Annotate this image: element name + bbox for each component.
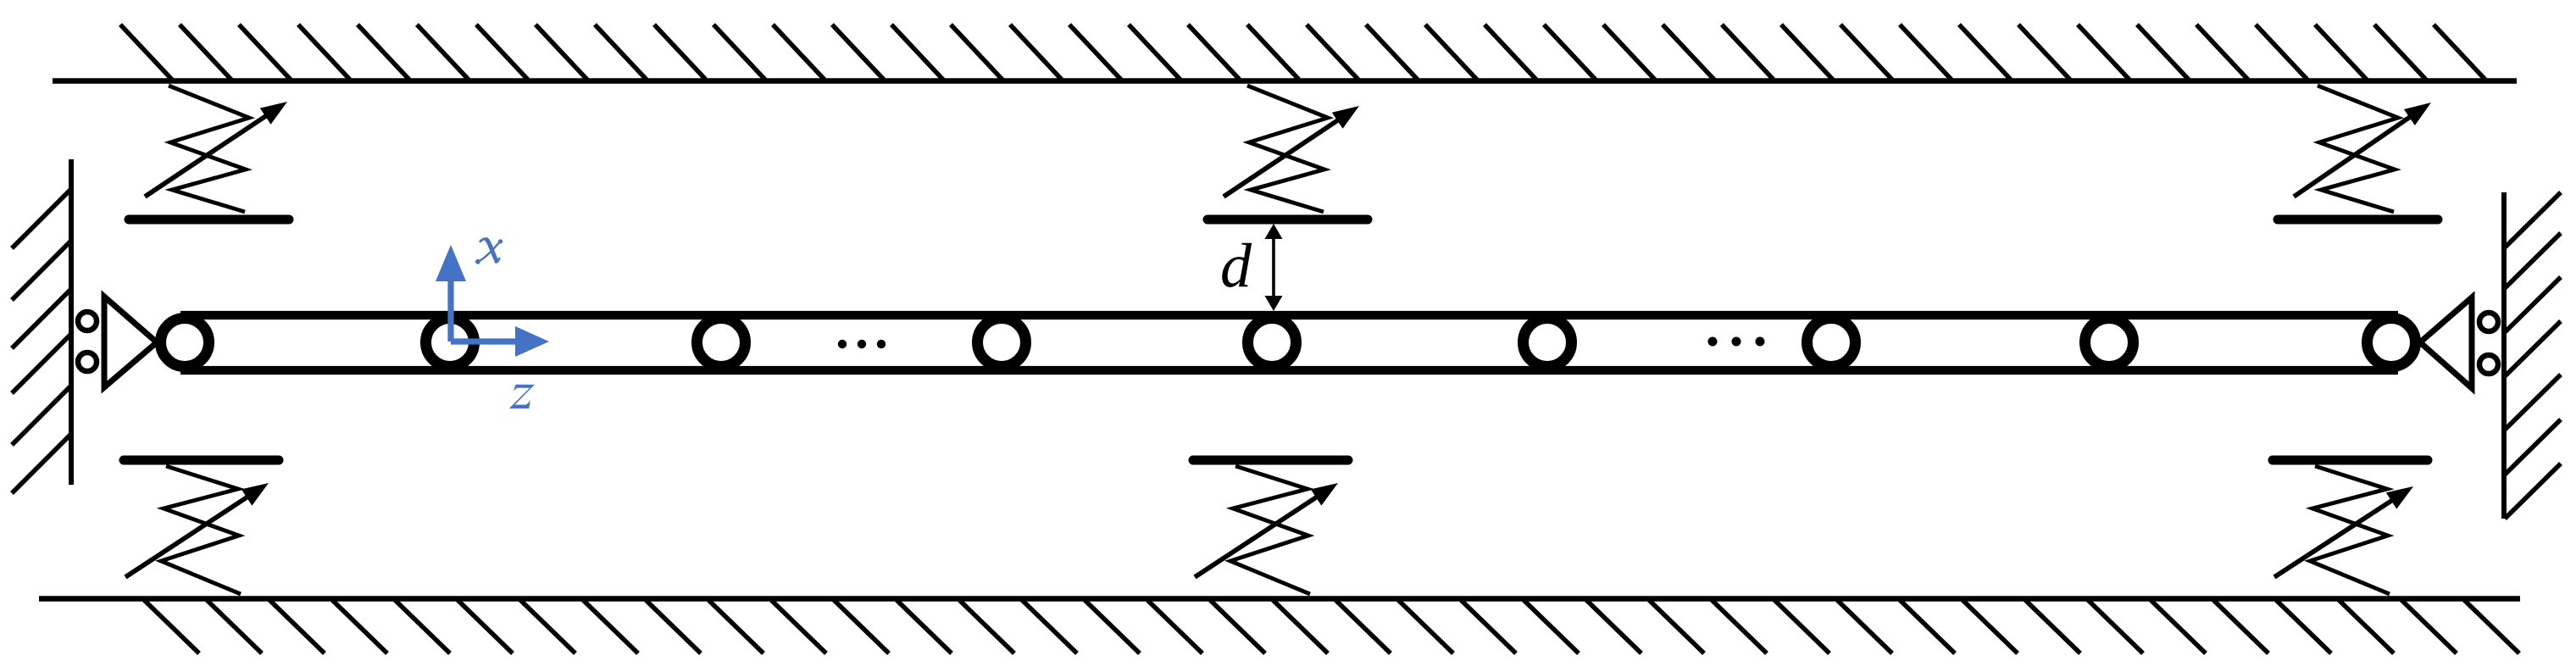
left wall hatching bbox=[12, 189, 71, 493]
left support roller upper bbox=[78, 312, 97, 330]
axis label z bbox=[509, 385, 535, 408]
right wall line bbox=[2501, 192, 2507, 519]
beam node 2 bbox=[426, 319, 475, 367]
ellipsis dots right group bbox=[1708, 337, 1765, 347]
spring bottom-right (zigzag, arrow, contact plate) bbox=[2273, 460, 2428, 594]
left pinned support triangle bbox=[104, 297, 157, 387]
bottom wall line bbox=[39, 596, 2520, 602]
spring top-middle (zigzag, arrow, contact plate) bbox=[1207, 86, 1368, 219]
right wall hatching bbox=[2505, 192, 2561, 519]
beam node 9 bbox=[2368, 319, 2416, 367]
right support roller upper bbox=[2479, 313, 2498, 331]
coordinate axis z (horizontal, blue) bbox=[451, 326, 549, 357]
top wall line bbox=[53, 78, 2517, 84]
spring top-right (zigzag, arrow, contact plate) bbox=[2278, 86, 2438, 219]
spring bottom-left (zigzag, arrow, contact plate) bbox=[124, 460, 279, 594]
beam node 1 bbox=[161, 319, 209, 367]
bottom wall hatching bbox=[144, 600, 2519, 653]
coordinate axis x (vertical, blue) bbox=[436, 245, 466, 342]
beam node 7 bbox=[1807, 319, 1856, 367]
beam node 4 bbox=[978, 319, 1026, 367]
top wall hatching bbox=[120, 25, 2485, 80]
spring bottom-middle (zigzag, arrow, contact plate) bbox=[1193, 460, 1348, 594]
beam node 6 bbox=[1524, 319, 1572, 367]
beam node 8 bbox=[2085, 319, 2134, 367]
gap dimension arrow d bbox=[1265, 224, 1283, 311]
ellipsis dots left group bbox=[838, 340, 885, 348]
left wall line bbox=[69, 159, 74, 485]
right support roller lower bbox=[2479, 355, 2498, 374]
beam node 3 bbox=[697, 319, 746, 367]
right pinned support triangle bbox=[2420, 297, 2472, 388]
spring top-left (zigzag, arrow, contact plate) bbox=[129, 86, 289, 219]
axis label x bbox=[475, 239, 502, 264]
beam node 5 bbox=[1248, 319, 1296, 367]
svg-text:d: d bbox=[1220, 231, 1252, 301]
left support roller lower bbox=[78, 353, 97, 371]
beam bottom edge bbox=[180, 366, 2398, 375]
beam top edge bbox=[180, 311, 2398, 319]
